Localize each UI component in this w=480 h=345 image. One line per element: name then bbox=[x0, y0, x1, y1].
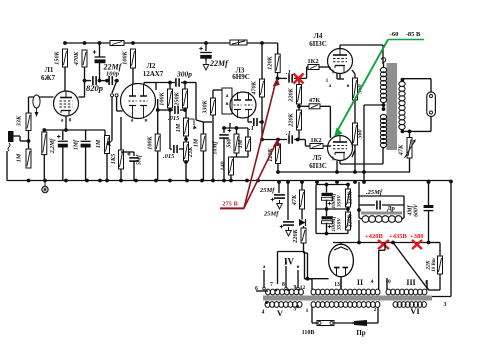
red X 380 bbox=[412, 240, 422, 249]
svg-text:.1: .1 bbox=[249, 125, 254, 132]
label Л1 6Ж7 bbox=[41, 66, 55, 82]
svg-text:100p: 100p bbox=[106, 71, 120, 78]
svg-text:4: 4 bbox=[371, 279, 374, 285]
label 110В bbox=[302, 330, 315, 336]
capacitor 820p bbox=[85, 76, 108, 93]
svg-text:а: а bbox=[226, 93, 229, 99]
capacitor 300p bbox=[156, 70, 196, 87]
svg-text:300p: 300p bbox=[176, 70, 192, 79]
pin labels V4 bbox=[326, 79, 350, 89]
heater lead a bbox=[263, 264, 266, 290]
tube Л2 12АХ7 bbox=[121, 84, 156, 119]
wire HV feed down bbox=[316, 182, 318, 185]
svg-text:-60: -60 bbox=[390, 31, 399, 38]
svg-text:13: 13 bbox=[334, 282, 340, 288]
winding VI bbox=[393, 302, 426, 308]
wire rectifier anodes bbox=[304, 243, 386, 290]
svg-text:а: а bbox=[131, 118, 134, 124]
svg-text:а: а bbox=[263, 264, 266, 270]
svg-text:250К: 250К bbox=[174, 91, 181, 106]
capacitor 4Мf 600V bbox=[408, 180, 434, 243]
svg-text:1К2: 1К2 bbox=[307, 58, 318, 65]
wire B+ top bus bbox=[63, 41, 278, 45]
resistor 1К2 lower bbox=[305, 137, 331, 149]
svg-text:47К: 47К bbox=[398, 144, 405, 156]
label Л2 12АХ7 bbox=[143, 62, 164, 78]
capacitor .1 upper coupling bbox=[276, 69, 307, 83]
wire to volume wiper bbox=[108, 97, 123, 146]
winding V bbox=[265, 302, 302, 308]
pin 10 bbox=[385, 279, 391, 285]
svg-text:10: 10 bbox=[385, 279, 391, 285]
capacitor 100p bbox=[105, 71, 120, 86]
svg-text:25Мf: 25Мf bbox=[259, 187, 275, 194]
svg-text:22К: 22К bbox=[426, 259, 432, 271]
svg-text:25Мf: 25Мf bbox=[263, 211, 279, 218]
resistor 1М V3 bbox=[237, 128, 251, 157]
fuse bbox=[317, 321, 354, 326]
svg-text:в: в bbox=[297, 264, 300, 270]
svg-text:-85 В: -85 В bbox=[406, 31, 421, 38]
winding III bbox=[386, 278, 427, 295]
svg-text:47К: 47К bbox=[309, 97, 321, 104]
wire plate V1 bbox=[64, 67, 66, 91]
horizontal resistor B+ filter 1 bbox=[110, 41, 124, 46]
svg-text:.25Мf: .25Мf bbox=[366, 189, 383, 196]
svg-text:2: 2 bbox=[374, 307, 377, 313]
svg-text:220К: 220К bbox=[347, 214, 353, 229]
svg-text:Др: Др bbox=[387, 205, 395, 212]
wire cathode V4 V5 returns bbox=[337, 74, 344, 172]
tube Л3 6Н9С bbox=[230, 92, 256, 118]
svg-text:1: 1 bbox=[306, 308, 309, 314]
capacitor .015 first bbox=[158, 106, 187, 122]
svg-text:.015: .015 bbox=[163, 153, 175, 160]
label Пр bbox=[356, 329, 365, 337]
svg-text:в: в bbox=[225, 101, 228, 107]
label Др bbox=[387, 205, 395, 212]
pin labels a v V2 bbox=[131, 118, 148, 124]
svg-text:220К: 220К bbox=[288, 87, 295, 102]
resistor 120К second bbox=[267, 138, 281, 172]
capacitor .1 V3 plate bbox=[248, 97, 264, 132]
speaker Гр bbox=[427, 92, 436, 117]
pin 3 VI bbox=[444, 302, 447, 308]
svg-text:3: 3 bbox=[444, 302, 447, 308]
note 275 В bbox=[220, 201, 245, 209]
resistor 120К first bbox=[267, 43, 281, 73]
svg-text:100К: 100К bbox=[159, 91, 166, 105]
wire 560 chain bbox=[354, 100, 356, 171]
primary winding upper bbox=[380, 58, 386, 103]
red pointer upper bbox=[244, 78, 280, 208]
label Л3 6Н9С bbox=[232, 67, 250, 82]
svg-text:б: б bbox=[285, 259, 288, 266]
resistor 1М second bbox=[175, 110, 197, 136]
resistor 47К coupling bbox=[299, 97, 330, 138]
resistor 1К2 upper bbox=[307, 58, 330, 78]
svg-text:12АХ7: 12АХ7 bbox=[143, 70, 164, 78]
wire grid V3 lower bbox=[196, 120, 212, 122]
heater lead v bbox=[297, 264, 300, 290]
wire secondary top to speaker bbox=[404, 79, 431, 92]
svg-text:220К: 220К bbox=[292, 228, 299, 243]
pin 4 II bbox=[371, 279, 374, 285]
svg-text:1М: 1М bbox=[193, 138, 200, 147]
svg-text:.1: .1 bbox=[286, 69, 291, 76]
svg-text:560: 560 bbox=[357, 129, 364, 138]
tube rectifier bbox=[329, 244, 354, 277]
svg-text:330К: 330К bbox=[202, 99, 209, 114]
svg-text:470К: 470К bbox=[73, 51, 80, 66]
wire filter box bbox=[316, 183, 350, 236]
resistor 560 upper bbox=[352, 70, 364, 100]
capacitor 25Мf first bbox=[259, 182, 285, 209]
note +420В +435В bbox=[365, 233, 407, 240]
wire V4 plate to primary bbox=[340, 45, 383, 64]
resistor 1М bbox=[16, 149, 32, 168]
wire right return bbox=[428, 180, 453, 297]
pin numbers IV bbox=[255, 282, 305, 292]
label III bbox=[406, 278, 415, 287]
wire B+ out bbox=[333, 220, 430, 244]
tube Л1 6Ж7 bbox=[54, 91, 79, 116]
capacitor .015 second bbox=[163, 110, 184, 160]
wire input to grid divider bbox=[20, 136, 30, 143]
svg-text:6П3С: 6П3С bbox=[309, 40, 327, 48]
svg-text:4: 4 bbox=[262, 310, 265, 316]
resistor cathode V1 bbox=[42, 130, 47, 181]
svg-text:6Ж7: 6Ж7 bbox=[41, 74, 55, 82]
svg-text:275 В: 275 В bbox=[222, 201, 238, 208]
svg-text:в: в bbox=[347, 84, 350, 89]
trimmer 47К feedback bbox=[398, 131, 416, 172]
svg-text:600V: 600V bbox=[414, 203, 420, 217]
svg-text:220К: 220К bbox=[288, 112, 295, 127]
ground symbol bbox=[42, 181, 48, 193]
resistor 100К plate V2a bbox=[122, 49, 136, 84]
diode bias bbox=[299, 219, 306, 226]
svg-text:б: б bbox=[69, 117, 72, 124]
wire secondary bottom bbox=[401, 117, 432, 134]
green arrow to V5 grid bbox=[334, 40, 388, 137]
svg-text:III: III bbox=[406, 278, 415, 287]
choke Др bbox=[359, 212, 404, 223]
svg-text:Л1: Л1 bbox=[45, 66, 54, 74]
resistor 140 bbox=[220, 153, 249, 181]
wire ground bus bbox=[7, 179, 451, 184]
label V bbox=[277, 308, 284, 318]
svg-text:7: 7 bbox=[270, 282, 273, 288]
wire bias line green bbox=[388, 39, 424, 41]
svg-text:.1: .1 bbox=[286, 130, 291, 137]
svg-text:350V: 350V bbox=[336, 194, 342, 208]
resistor 220К upper grid bbox=[288, 77, 302, 109]
svg-text:1К5: 1К5 bbox=[110, 154, 117, 164]
svg-text:33К: 33К bbox=[16, 115, 23, 127]
resistor 330К bbox=[202, 90, 223, 181]
red X 420 bbox=[378, 240, 389, 249]
wire V3 to lower coupling bbox=[260, 122, 264, 141]
resistor 22К 10Вт bbox=[426, 243, 443, 291]
resistor 470К V3 plate bbox=[251, 43, 265, 97]
pin 1 III bbox=[425, 280, 428, 286]
label Л5 6П3С bbox=[309, 154, 327, 170]
wire screen V1 bbox=[79, 67, 87, 97]
resistor 100К cathode V2b bbox=[147, 99, 161, 181]
svg-text:10Мf: 10Мf bbox=[213, 140, 219, 154]
plug Пр bbox=[352, 320, 367, 326]
bias label -60 -85 В bbox=[390, 31, 421, 38]
svg-text:II: II bbox=[357, 278, 363, 287]
svg-text:V: V bbox=[277, 308, 284, 318]
resistor 33К bbox=[16, 113, 32, 131]
tube Л5 6П3С bbox=[328, 136, 353, 161]
capacitor 2,2Мf bbox=[50, 130, 68, 181]
potentiometer 1М volume bbox=[95, 130, 110, 181]
resistor 220К bleeder first bbox=[346, 189, 354, 207]
wire B+ diagonal to III bbox=[391, 241, 428, 290]
pins primary bbox=[306, 307, 377, 314]
resistor 100К interstage bbox=[159, 89, 173, 108]
svg-text:47К: 47К bbox=[291, 194, 298, 206]
tube Л4 6П3С bbox=[328, 49, 353, 74]
svg-text:9: 9 bbox=[294, 285, 297, 291]
svg-text:1М: 1М bbox=[95, 139, 102, 148]
wire V5 plate to primary bbox=[340, 147, 383, 164]
capacitor 10Мf V3 bbox=[213, 128, 232, 181]
transformer core mains bbox=[263, 296, 432, 301]
wire rectifier cathode bbox=[340, 243, 342, 290]
capacitor 100Мf 350V second bbox=[322, 215, 343, 231]
secondary winding bbox=[399, 78, 405, 132]
wire grid return V2 bbox=[120, 117, 122, 150]
shield terminal bbox=[33, 95, 40, 117]
svg-text:150К: 150К bbox=[54, 50, 61, 64]
wire interstage node bbox=[168, 81, 196, 120]
pin labels a b V1 bbox=[61, 117, 72, 124]
svg-text:470К: 470К bbox=[251, 80, 258, 95]
svg-text:110В: 110В bbox=[302, 330, 315, 336]
primary winding lower bbox=[380, 114, 386, 149]
svg-text:Л4: Л4 bbox=[314, 32, 323, 40]
wire choke node bbox=[357, 182, 361, 218]
svg-text:120К: 120К bbox=[267, 55, 274, 69]
svg-text:+380: +380 bbox=[410, 233, 423, 240]
svg-text:5: 5 bbox=[294, 307, 297, 313]
capacitor 1Мf bbox=[74, 130, 91, 181]
ground arrow 22Мf bbox=[203, 61, 209, 70]
label VI bbox=[410, 306, 420, 316]
red X coupling cap bbox=[294, 74, 304, 84]
capacitor 100Мf 350V first bbox=[322, 192, 343, 208]
winding IV bbox=[266, 289, 304, 295]
horizontal resistor B+ filter 2 bbox=[230, 40, 247, 45]
svg-text:100К: 100К bbox=[122, 50, 129, 64]
svg-text:1М: 1М bbox=[16, 153, 23, 162]
svg-text:100К: 100К bbox=[147, 135, 154, 149]
svg-text:140: 140 bbox=[220, 161, 227, 170]
wire plate V2b bbox=[144, 83, 156, 91]
input jack J1 bbox=[7, 131, 20, 181]
resistor 470К bbox=[73, 50, 87, 67]
svg-text:Л2: Л2 bbox=[147, 62, 156, 70]
svg-text:в: в bbox=[144, 118, 147, 124]
label II bbox=[357, 278, 363, 287]
svg-text:1К2: 1К2 bbox=[310, 137, 321, 144]
svg-text:1: 1 bbox=[425, 280, 428, 286]
resistor 47К bias supply bbox=[291, 182, 305, 219]
winding I primary bbox=[311, 302, 380, 308]
label IV box bbox=[278, 252, 313, 285]
svg-text:6П3С: 6П3С bbox=[309, 162, 327, 170]
capacitor 25Мf second bbox=[263, 182, 294, 236]
svg-text:22Мf: 22Мf bbox=[209, 59, 229, 68]
capacitor 22Мf second bbox=[199, 43, 229, 68]
resistor 1К5 bbox=[110, 150, 124, 181]
svg-text:350V: 350V bbox=[336, 217, 342, 231]
wire primary center tap bbox=[364, 103, 385, 182]
heater lead b bbox=[285, 259, 288, 290]
svg-text:VI: VI bbox=[410, 306, 420, 316]
capacitor .1 lower coupling bbox=[262, 130, 305, 144]
wire grid lead bbox=[29, 97, 54, 149]
svg-text:10 Вт: 10 Вт bbox=[432, 258, 437, 272]
svg-text:820p: 820p bbox=[86, 83, 103, 93]
resistor 23К bbox=[184, 136, 194, 181]
svg-text:2,2Мf: 2,2Мf bbox=[50, 138, 56, 154]
pin 13 bbox=[334, 282, 340, 288]
svg-text:8: 8 bbox=[282, 282, 285, 288]
resistor 150К bbox=[54, 49, 68, 67]
capacitor 5Мf bbox=[121, 152, 143, 181]
svg-text:5Мf: 5Мf bbox=[137, 154, 143, 165]
resistor 560 V3 bbox=[226, 128, 240, 153]
resistor 1М third bbox=[193, 122, 206, 181]
svg-text:220К: 220К bbox=[347, 191, 353, 206]
winding II bbox=[311, 279, 380, 295]
transformer core OT bbox=[387, 63, 398, 150]
capacitor .25Мf bbox=[358, 189, 404, 218]
svg-text:Пр: Пр bbox=[356, 329, 365, 337]
wire cathode V3 bbox=[222, 123, 248, 130]
svg-text:560: 560 bbox=[226, 138, 233, 147]
svg-text:6Н9С: 6Н9С bbox=[232, 73, 250, 81]
resistor 220К bleeder second bbox=[346, 212, 354, 230]
note +380 bbox=[410, 233, 423, 240]
wire mains fuse loop bbox=[312, 307, 378, 323]
svg-text:+420В: +420В bbox=[365, 233, 383, 240]
capacitor 22Мf decoupl bbox=[93, 43, 123, 83]
svg-text:+435В: +435В bbox=[389, 233, 407, 240]
resistor 250К bbox=[174, 89, 188, 108]
pins V bbox=[262, 301, 299, 316]
label Л4 6П3С bbox=[309, 32, 327, 48]
svg-text:12: 12 bbox=[300, 285, 306, 291]
svg-text:1М: 1М bbox=[237, 139, 244, 148]
wire cathode V1 bbox=[42, 116, 105, 132]
resistor 220К lower grid bbox=[288, 104, 302, 140]
terminal box V3 bbox=[222, 88, 232, 114]
red pointer lower bbox=[244, 139, 280, 208]
svg-text:1М: 1М bbox=[175, 123, 182, 132]
svg-text:а: а bbox=[61, 118, 64, 124]
wire screen return bus bbox=[276, 170, 409, 174]
resistor 560 lower bbox=[352, 123, 364, 157]
svg-text:Л5: Л5 bbox=[313, 154, 322, 162]
svg-text:1Мf: 1Мf bbox=[74, 139, 80, 150]
resistor 220К bias bbox=[292, 226, 306, 253]
switch tone bbox=[111, 79, 119, 97]
